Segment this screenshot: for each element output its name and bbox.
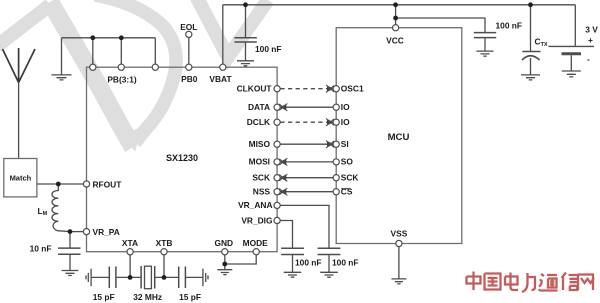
wire VBAT riser [222, 5, 224, 64]
svg-text:MOSI: MOSI [249, 157, 270, 167]
pin CS [333, 189, 339, 195]
ground below VR_ANA cap [320, 272, 338, 277]
pin GND [222, 249, 228, 255]
wire VCC riser [395, 5, 397, 25]
capacitor 100nF at VBAT [234, 38, 256, 42]
pin XTA [127, 249, 133, 255]
wire coil to VR_PA [70, 231, 83, 233]
svg-text:RFOUT: RFOUT [93, 179, 123, 189]
wire PB bus [62, 37, 156, 39]
wire CLKOUT to OSC1 dashed [280, 88, 333, 90]
capacitor 100nF top right [474, 33, 496, 38]
battery 3V wire [574, 5, 576, 46]
pin SI [333, 141, 339, 147]
svg-text:100 nF: 100 nF [496, 21, 523, 31]
pin CLKOUT [274, 86, 280, 92]
wire crystal to cap right [155, 276, 179, 278]
ground below VSS [391, 279, 406, 284]
battery 3V plates [549, 45, 595, 47]
pin IO2 [333, 119, 339, 125]
arrow into DATA [280, 104, 287, 111]
pin VR_PA [83, 229, 89, 235]
svg-text:SCK: SCK [341, 173, 359, 183]
svg-text:VCC: VCC [386, 36, 404, 46]
watermark gray arc hook [95, 0, 176, 143]
svg-text:32 MHz: 32 MHz [133, 292, 162, 302]
pin MODE [253, 249, 259, 255]
svg-text:PB(3:1): PB(3:1) [107, 74, 137, 84]
svg-text:IO: IO [341, 117, 350, 127]
svg-text:10 nF: 10 nF [30, 243, 52, 253]
wire SO to MOSI [280, 161, 333, 163]
svg-text:3 V: 3 V [585, 25, 598, 35]
svg-text:+: + [588, 35, 593, 45]
svg-text:SI: SI [341, 139, 349, 149]
arrow into SI [327, 141, 334, 148]
svg-text:VR_ANA: VR_ANA [238, 200, 272, 210]
wire bus left drop [61, 38, 63, 75]
capacitor 10nF [58, 248, 81, 254]
antenna [3, 48, 36, 83]
svg-text:XTB: XTB [156, 238, 173, 248]
pin VR_ANA [274, 202, 280, 208]
pin VR_DIG [274, 217, 280, 223]
node XTB [162, 275, 167, 280]
svg-text:Match: Match [10, 174, 32, 183]
wire DCLK to IO dashed [280, 121, 333, 123]
wire IO to DATA [280, 106, 333, 108]
ground left rotated [86, 269, 91, 287]
MCU box [336, 28, 462, 244]
wire MODE to GND [225, 255, 256, 264]
crystal 32MHz plates [141, 266, 155, 289]
watermark gray vee [196, 0, 268, 57]
watermark gray stroke main [0, 5, 50, 46]
svg-text:VR_PA: VR_PA [93, 227, 120, 237]
node VCC branch [393, 16, 398, 21]
pin MISO [274, 141, 280, 147]
svg-text:CLKOUT: CLKOUT [237, 84, 273, 94]
svg-text:EOL: EOL [180, 22, 197, 32]
wire crystal row left [91, 276, 109, 278]
pin MOSI [274, 159, 280, 165]
pin EOL [186, 31, 192, 37]
svg-text:CS: CS [341, 187, 353, 197]
wire SCK to SCK [280, 177, 333, 179]
ground below battery [562, 71, 581, 77]
pin DATA [274, 104, 280, 110]
wire VR_ANA to cap [280, 205, 329, 247]
svg-text:NSS: NSS [253, 187, 271, 197]
pin circles [83, 25, 402, 255]
inductor LM coil [52, 184, 70, 232]
ground below GND pin [217, 270, 232, 275]
arrow into OSC1 [327, 85, 334, 92]
crystal 32MHz body [145, 266, 152, 289]
svg-text:XTA: XTA [122, 238, 138, 248]
svg-text:DCLK: DCLK [247, 117, 270, 127]
svg-text:MODE: MODE [243, 238, 269, 248]
node rail cap1 [243, 2, 248, 7]
ground below 10nF [62, 271, 79, 276]
capacitor 15pF left [109, 267, 116, 289]
svg-text:-: - [587, 54, 590, 64]
pin SO [333, 159, 339, 165]
svg-text:IO: IO [341, 102, 350, 112]
pin VBAT [220, 64, 226, 70]
ground below bus [52, 75, 72, 80]
svg-text:15 pF: 15 pF [93, 292, 115, 302]
overline CS [341, 188, 351, 190]
wire XTB drop [163, 255, 165, 278]
capacitor 100nF VR_DIG [281, 248, 304, 254]
svg-text:DATA: DATA [248, 102, 270, 112]
wire VBAT top rail [223, 4, 576, 6]
wire match to RFOUT [37, 183, 84, 185]
capacitor 100nF VR_ANA [318, 248, 341, 254]
wire VSS drop [398, 247, 400, 279]
ground below VR_DIG cap [284, 272, 302, 277]
node PB bus dot1 [90, 35, 95, 40]
watermark red text [467, 272, 595, 293]
pin PB1 [90, 64, 96, 70]
svg-text:MCU: MCU [388, 132, 410, 143]
wire junction to 10nF [69, 232, 71, 248]
node rail CTX [528, 2, 533, 7]
wire EOL to PB0 [188, 38, 190, 65]
svg-text:VR_DIG: VR_DIG [241, 215, 272, 225]
wire cap to ground right [185, 276, 202, 278]
node XTA [128, 275, 133, 280]
svg-text:100 nF: 100 nF [295, 257, 322, 267]
wire branch to cap2 [396, 18, 485, 32]
SX1230 box [87, 67, 278, 252]
wire rail to cap1 [245, 5, 247, 38]
arrow into NSS [280, 188, 287, 195]
wire antenna to match [18, 83, 20, 159]
wire GND drop [224, 255, 226, 270]
wire PB riser 3 [154, 38, 156, 64]
wire CS to NSS [280, 191, 333, 193]
pin RFOUT [83, 181, 89, 187]
svg-text:15 pF: 15 pF [179, 292, 201, 302]
svg-text:SCK: SCK [252, 173, 270, 183]
pin PB3 [152, 64, 158, 70]
ground below cap2 [477, 51, 494, 56]
wire MISO to SI [280, 143, 333, 145]
pin PB0 [186, 64, 192, 70]
svg-text:MISO: MISO [249, 139, 271, 149]
svg-text:SX1230: SX1230 [166, 153, 198, 163]
node PB bus dot2 [119, 35, 124, 40]
capacitor 15pF right [179, 267, 186, 289]
pin NSS [274, 189, 280, 195]
wire rail to CTX [530, 5, 532, 51]
wire PB riser 1 [92, 38, 94, 64]
svg-text:100 nF: 100 nF [255, 44, 282, 54]
svg-text:PB0: PB0 [181, 74, 198, 84]
svg-text:SO: SO [341, 157, 354, 167]
svg-text:VSS: VSS [391, 229, 408, 239]
node VR_PA cap [68, 229, 73, 234]
pin XTB [161, 249, 167, 255]
arrow into MOSI [280, 159, 287, 166]
wire VR_DIG to cap [280, 221, 292, 248]
arrow into SCK [280, 174, 287, 181]
Match box [4, 159, 37, 197]
wire XTA drop [129, 255, 131, 278]
ground below cap1 [237, 61, 254, 66]
svg-text:OSC1: OSC1 [341, 84, 364, 94]
ground right rotated [203, 269, 208, 287]
node match coil [56, 182, 61, 187]
svg-text:GND: GND [214, 238, 233, 248]
pin SCK [274, 175, 280, 181]
pin PB2 [118, 64, 124, 70]
ground below CTX [521, 75, 540, 80]
arrow into IO [327, 119, 334, 126]
pin SCK MCU [333, 175, 339, 181]
pin OSC1 [333, 86, 339, 92]
node GND MODE [222, 262, 227, 267]
pin VSS [396, 240, 402, 246]
pin DCLK [274, 119, 280, 125]
pin VCC [393, 25, 399, 31]
capacitor CTX [522, 51, 540, 53]
wire PB riser 2 [120, 38, 122, 64]
node rail VCC [393, 2, 398, 7]
svg-text:VBAT: VBAT [209, 74, 232, 84]
wire cap to crystal left [116, 276, 141, 278]
pin IO1 [333, 104, 339, 110]
svg-text:100 nF: 100 nF [332, 258, 359, 268]
